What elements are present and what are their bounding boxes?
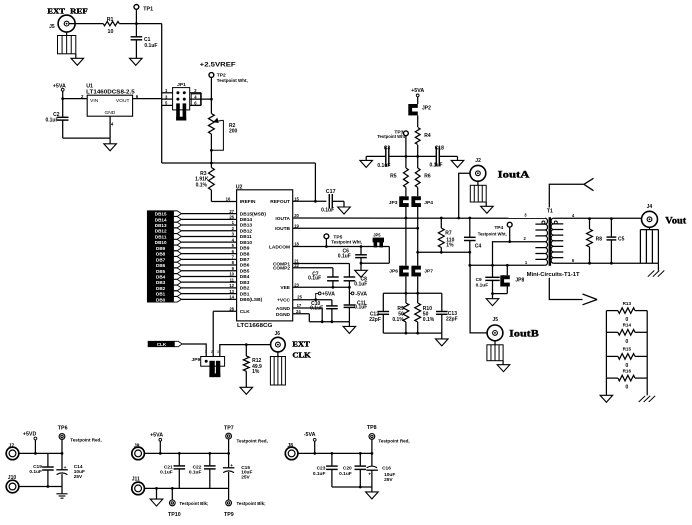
svg-text:TP8: TP8 [367,425,377,431]
node TP10 junction [171,487,174,490]
wire LADCOM net [293,246,390,248]
J4 ground stem [657,263,659,270]
wire C9 to JP8 [493,293,508,295]
connector J11 (banana agnd) [132,482,145,495]
wire DB13 [181,224,236,226]
svg-text:0: 0 [625,385,628,391]
svg-text:J2: J2 [475,158,481,164]
svg-text:COMP2: COMP2 [273,266,290,272]
capacitor C19 [42,466,54,468]
svg-text:DGND: DGND [276,312,291,318]
wire R3 to U2 IREFIN pin 16 [211,201,236,203]
svg-text:27: 27 [229,209,234,214]
ground (J5b) [497,365,510,372]
wire R3 to IREFIN [210,190,212,202]
node C6 lower junction [360,262,363,265]
node R9 top junction [405,292,408,295]
node R3 top junction [210,162,213,165]
svg-text:10: 10 [229,272,234,277]
svg-text:DB12: DB12 [155,229,167,234]
svg-text:25V: 25V [241,475,250,481]
node C9 bottom junction [491,292,494,295]
svg-text:R13: R13 [623,301,632,306]
svg-text:0.1uF: 0.1uF [308,276,321,282]
JP1 spare shunt outline [191,94,200,105]
connector J10 (banana gnd) [6,480,19,493]
J4 shield stem [649,227,651,229]
connector J6 (EXT CLK BNC) [271,337,286,352]
capacitor C7 [327,276,339,278]
svg-text:R16: R16 [623,368,632,373]
power tap +5VA (U1) [61,88,64,91]
svg-text:0.1uF: 0.1uF [354,282,367,288]
node JP4-IOUTB junction [416,227,419,230]
svg-text:TP1: TP1 [143,6,153,12]
J6 shield [270,357,285,386]
ground (J2) [481,206,494,213]
svg-text:3: 3 [217,350,219,354]
svg-text:+5VA: +5VA [150,433,163,439]
capacitor C23 [326,465,338,467]
svg-text:15: 15 [294,196,299,201]
svg-text:+: + [368,473,371,478]
net tag DB4 [147,274,181,279]
resistor R16 [606,377,618,379]
svg-text:TP7: TP7 [224,426,234,432]
wire JP7 to R10 box [417,276,419,293]
chassis ground (J4) [648,271,655,277]
wire U2 CLK pin 28 [213,310,236,312]
ground (group2) [150,499,163,506]
resistor R5 [404,168,409,187]
svg-text:DB2: DB2 [240,286,250,292]
node C20 top junction [359,452,362,455]
JP1 right column wire [200,93,202,106]
chassis ground (ladder right) [639,396,646,402]
T1 primary phase dot [542,221,545,224]
resistor R14 [606,331,618,333]
wire to C16 [371,453,373,466]
jumper JP2 [408,104,412,115]
JP9 pin 1 [205,360,208,363]
power tap +5VA (J9) [159,438,162,441]
ground (R12) [240,387,253,394]
+5VA tick wire [316,293,319,299]
svg-text:DB8: DB8 [156,252,166,257]
svg-text:DB4: DB4 [240,274,250,280]
wire AGND net [293,307,323,309]
wire LADCOM right down [388,247,390,264]
wire C5 to bottom [610,240,612,263]
J4 shield [640,229,658,231]
wire IOUTA up to J2 [459,173,470,218]
svg-text:DB0: DB0 [156,297,166,302]
net tag DB14 [147,217,181,222]
wire +VCC net [293,299,332,301]
svg-text:DB10: DB10 [240,240,253,246]
node pin2 rail junction [491,264,494,267]
TP2 stem [210,77,212,99]
wire JP6 to R9 box [405,276,407,293]
svg-text:C5: C5 [618,236,625,242]
net tag DB11 [147,234,181,239]
resistor R9 [403,303,409,322]
svg-text:24: 24 [296,309,301,314]
wire COMP2 to C7 [332,268,334,277]
TP6 stem [61,439,63,453]
regulator U1 box [87,95,132,116]
svg-text:DB15(MSB): DB15(MSB) [240,211,267,217]
resistor R10 [415,303,421,322]
capacitor C15 (polarized) [223,467,235,469]
net tag DB6 [147,262,181,267]
wire TP2 node to R2 [210,99,212,113]
svg-text:17: 17 [297,303,302,308]
TP3 stem [405,135,407,156]
wire R8 to bottom [589,247,591,263]
wire analog ground rail [309,321,349,323]
net tag DB13 [147,222,181,227]
svg-text:IOUTB: IOUTB [275,226,290,232]
svg-text:+5VA: +5VA [322,291,335,297]
svg-text:R6: R6 [424,173,431,179]
U1 ground stem [109,138,111,144]
connector J2 (IoutA BNC) [470,165,486,181]
svg-text:CLK: CLK [240,309,250,315]
connector J7 (banana +5VD) [6,447,19,460]
wire JP4 down [417,207,419,228]
TP7 stem [228,439,230,454]
transformer T1 core [549,217,552,266]
svg-text:JP7: JP7 [424,268,433,274]
J5 shield stem [66,32,68,35]
wire DB8 [181,253,236,255]
node C23 top junction [331,452,334,455]
svg-text:VOUT: VOUT [116,98,130,104]
node C20 bottom junction [359,486,362,489]
node R10 top junction [416,292,419,295]
C16 bottom wire [371,470,373,487]
C19 bottom wire [47,470,49,487]
C15 bottom wire [228,472,230,488]
node C5 top junction [610,217,613,220]
wire R2 to node [210,134,212,163]
R2 wiper arrow [217,120,224,121]
wire to C5 [610,219,612,238]
wire rail right segment [439,155,457,157]
wire to C14 [61,453,63,469]
svg-text:C20: C20 [343,465,352,471]
JP1 pin stubs left [162,92,173,94]
svg-text:JP5: JP5 [373,233,381,238]
connector J4 (Vout BNC) [642,211,658,227]
wire IOUTB net [293,227,418,229]
wire to C22 [209,453,211,466]
svg-text:200: 200 [229,129,238,135]
svg-text:DB5: DB5 [240,268,250,274]
group3 ground stem [371,487,373,492]
testpoint TP4 [507,222,512,227]
wire C9 down [492,280,494,298]
C14 bottom wire [61,474,63,487]
wire J11 rail [144,487,229,489]
JP1 pin stubs right [190,92,201,94]
testpoint TP9 stem [228,488,230,500]
header JP9 box [201,357,225,367]
T1 secondary winding [551,218,563,263]
svg-text:DB1: DB1 [156,292,166,297]
node AGND rail junction [321,320,324,323]
svg-text:DB0(LSB): DB0(LSB) [240,297,263,303]
wire R4 to rail [417,145,419,156]
connector J8 (banana -5VA) [285,447,298,460]
svg-text:DB6: DB6 [240,263,250,269]
wire JP7 column [417,252,419,265]
wire R9R10 bottom rail [383,332,442,334]
resistor R3 [209,168,215,191]
wire VEE net [293,286,350,288]
group2 ground stem [156,488,158,499]
wire box left edge top [382,293,384,311]
resistor R12 [243,356,249,371]
wire rail mid segment [389,155,437,157]
wire ladder left rail [605,311,607,396]
svg-text:DB11: DB11 [240,234,252,240]
svg-text:0: 0 [625,339,628,345]
rail left ground stem [365,156,367,160]
svg-text:C16: C16 [382,465,391,471]
wire to C23 [331,453,333,466]
wire IOUTA to R7 [440,218,442,228]
svg-text:+2.5VREF: +2.5VREF [200,63,236,69]
wire group3 bottom rail [332,486,372,488]
connector J5 (EXT REF BNC) [58,15,75,32]
wire rail to R6 [417,156,419,168]
testpoint TP7 [226,433,232,439]
wire R9R10 top rail [383,292,442,294]
svg-text:1%: 1% [446,242,454,248]
testpoint TP10 stem [171,488,173,500]
wire rail down to J5 [470,265,487,333]
wire box right edge bottom [441,314,443,333]
svg-text:DB2: DB2 [156,286,166,291]
svg-text:20: 20 [294,213,299,218]
wire rail to R5 [405,156,407,168]
node JP1-TP2 junction [210,98,213,101]
-5VA tick [349,292,351,294]
ground (rail left) [360,160,373,167]
svg-text:16: 16 [226,197,231,202]
svg-text:1%: 1% [252,369,260,375]
net tag CLK [148,341,182,346]
ground (group3) [366,492,379,499]
ground (rail right) [451,160,464,167]
svg-text:DB14: DB14 [240,217,253,223]
node R8 bottom junction [588,262,591,265]
svg-text:TP4: TP4 [494,225,503,231]
ground (R9R10 box) [436,339,449,346]
jumper JP5 [373,238,384,243]
svg-text:REF: REF [70,6,88,15]
wire COMP1 net [293,263,350,265]
power tap +5VA (VCC) [318,292,321,295]
node C4-IOUTB junction [468,251,471,254]
C22 bottom wire [209,469,211,489]
svg-text:DB1: DB1 [240,291,250,297]
node column B junction [416,251,419,254]
svg-text:DB12: DB12 [240,228,253,234]
capacitor C14 (polarized) [56,469,68,471]
capacitor C12 [378,311,390,313]
wire DB1 [181,293,236,295]
svg-text:REFOUT: REFOUT [270,199,290,205]
wire DB2 [181,287,236,289]
svg-text:Testpoint Red,: Testpoint Red, [378,439,409,444]
J2 shield stem [477,181,479,185]
wire DB10 [181,241,236,243]
svg-text:14: 14 [229,295,234,300]
wire DB6 [181,264,236,266]
svg-text:IoutA: IoutA [498,169,530,180]
svg-text:DB3: DB3 [156,280,166,285]
wire JP6 column [405,218,407,266]
svg-text:18: 18 [294,242,299,247]
capacitor C4 [464,236,476,238]
capacitor C5 [607,236,617,238]
wire DB0 [181,298,236,300]
wire to R12 [245,345,247,356]
capacitor C16 (polarized, inverted) [367,466,377,468]
svg-text:Testpoint Red,: Testpoint Red, [70,437,101,442]
wire U2 REFOUT pin 15 [293,200,327,202]
wire R6 to JP4 [417,187,419,196]
net tag DB5 [147,268,181,273]
svg-text:12: 12 [229,283,234,288]
svg-text:C1: C1 [144,37,151,43]
+5VA stub to VIN wire [62,91,64,99]
wire C8 down [348,281,350,305]
svg-text:+: + [230,464,233,469]
svg-text:+: + [64,466,67,471]
T1 secondary phase dot [554,221,557,224]
svg-text:DB5: DB5 [156,269,166,274]
capacitor C10 [326,305,338,307]
testpoint TP6 [59,434,65,440]
jumper JP8 [500,275,504,286]
J6 shield stem [277,352,279,357]
connector J9 (banana +5VA) [132,447,145,460]
node R7 top junction [440,217,443,220]
svg-text:+VCC: +VCC [277,298,290,304]
node C5 bottom junction [610,262,613,265]
net tag DB9 [147,245,181,250]
C20 bottom wire [359,469,361,487]
svg-text:DB11: DB11 [155,234,167,239]
svg-text:CLK: CLK [157,342,167,347]
svg-text:VEE: VEE [280,285,290,291]
wire CLK down to JP9 [212,311,214,356]
capacitor C18 [435,147,437,167]
wire DB3 [181,281,236,283]
wire C10 to rail [331,309,333,322]
capacitor C1 [131,36,143,38]
svg-text:22pF: 22pF [369,317,381,323]
J5 shield [58,36,76,54]
svg-text:VIN: VIN [90,98,99,104]
node JP3-IOUTA junction [405,217,408,220]
rail ground stem [348,322,350,327]
ground (C9) [486,299,499,306]
wire T1 secondary bottom [554,262,659,264]
svg-text:AGND: AGND [276,306,291,312]
svg-text:DB8: DB8 [240,251,250,257]
JP1 shunt jumper [176,103,180,120]
wire rail to C9 [492,265,494,277]
resistor R1 [103,21,119,25]
svg-text:LT1460DCS8-2.5: LT1460DCS8-2.5 [86,89,135,95]
svg-text:Vout: Vout [665,216,687,227]
resistor R6 [415,168,420,187]
svg-text:JP8: JP8 [515,277,524,283]
wire to R10 [417,293,419,303]
connector J5 (IoutB BNC) [487,325,503,341]
wire DB14 [181,218,236,220]
svg-text:C9: C9 [476,277,482,283]
power tap -5VA (J8) [313,438,316,441]
resistor R7 [438,228,444,248]
svg-text:25: 25 [297,295,302,300]
resistor R8 [587,229,593,247]
svg-text:IREFIN: IREFIN [240,199,256,205]
wire R12 to ground [245,371,247,387]
svg-text:JP3: JP3 [389,200,398,206]
wire R10 to bottom rail [417,322,419,333]
capacitor C17 [328,194,330,209]
wire U1 VOUT to JP1 column [133,98,162,100]
svg-text:Testpoint Blk;: Testpoint Blk; [179,501,209,506]
svg-text:Testpoint Wht,: Testpoint Wht, [217,78,248,83]
node R4 rail junction [416,155,419,158]
node +VCC junction [314,298,317,301]
svg-text:22pF: 22pF [446,317,458,323]
wire DB15 [181,213,236,215]
svg-text:Testpoint Wht,: Testpoint Wht, [377,134,406,139]
wire DB7 [181,258,236,260]
node VIN junction [61,97,64,100]
capacitor C13 [436,311,448,313]
wire IOUTA to C4 [469,218,471,237]
wire DB9 [181,247,236,249]
resistor R4 [415,128,420,145]
svg-text:JP9: JP9 [191,357,200,363]
svg-text:0.1uF: 0.1uF [144,43,157,49]
J2 ground stem [485,202,487,206]
node C22 top junction [208,452,211,455]
testpoint TP10 [169,500,175,506]
wire C7 to VEE line [332,281,334,288]
TP4 stem [509,227,511,242]
svg-text:DB14: DB14 [155,217,167,222]
capacitor C20 [355,465,367,467]
power tap +5VA (JP2) [416,94,419,97]
net tag DB8 [147,251,181,256]
header JP1 box [173,88,190,110]
svg-text:TP6: TP6 [58,426,68,432]
ground (J5 shield) [71,58,84,65]
wire DB11 [181,235,236,237]
testpoint TP2 [209,73,214,78]
node R8 top junction [588,217,591,220]
